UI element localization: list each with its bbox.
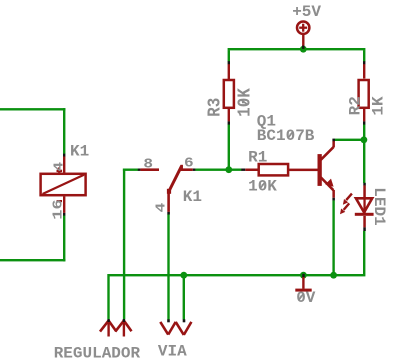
svg-text:16: 16 xyxy=(50,199,66,219)
svg-text:8: 8 xyxy=(143,155,153,172)
svg-text:+5V: +5V xyxy=(292,3,321,21)
svg-text:REGULADOR: REGULADOR xyxy=(54,345,141,363)
svg-text:6: 6 xyxy=(184,155,194,172)
svg-text:LED1: LED1 xyxy=(370,187,388,225)
svg-text:R2: R2 xyxy=(346,96,364,115)
svg-text:BC107B: BC107B xyxy=(257,127,315,145)
svg-text:4: 4 xyxy=(152,203,169,213)
svg-text:R1: R1 xyxy=(248,149,267,167)
svg-text:4: 4 xyxy=(50,162,67,172)
svg-text:1K: 1K xyxy=(370,96,388,116)
svg-text:K1: K1 xyxy=(183,188,202,206)
svg-text:VIA: VIA xyxy=(158,343,187,361)
svg-text:10K: 10K xyxy=(236,87,256,117)
svg-text:K1: K1 xyxy=(70,143,89,161)
svg-text:R3: R3 xyxy=(206,98,226,117)
svg-text:0V: 0V xyxy=(296,289,316,307)
